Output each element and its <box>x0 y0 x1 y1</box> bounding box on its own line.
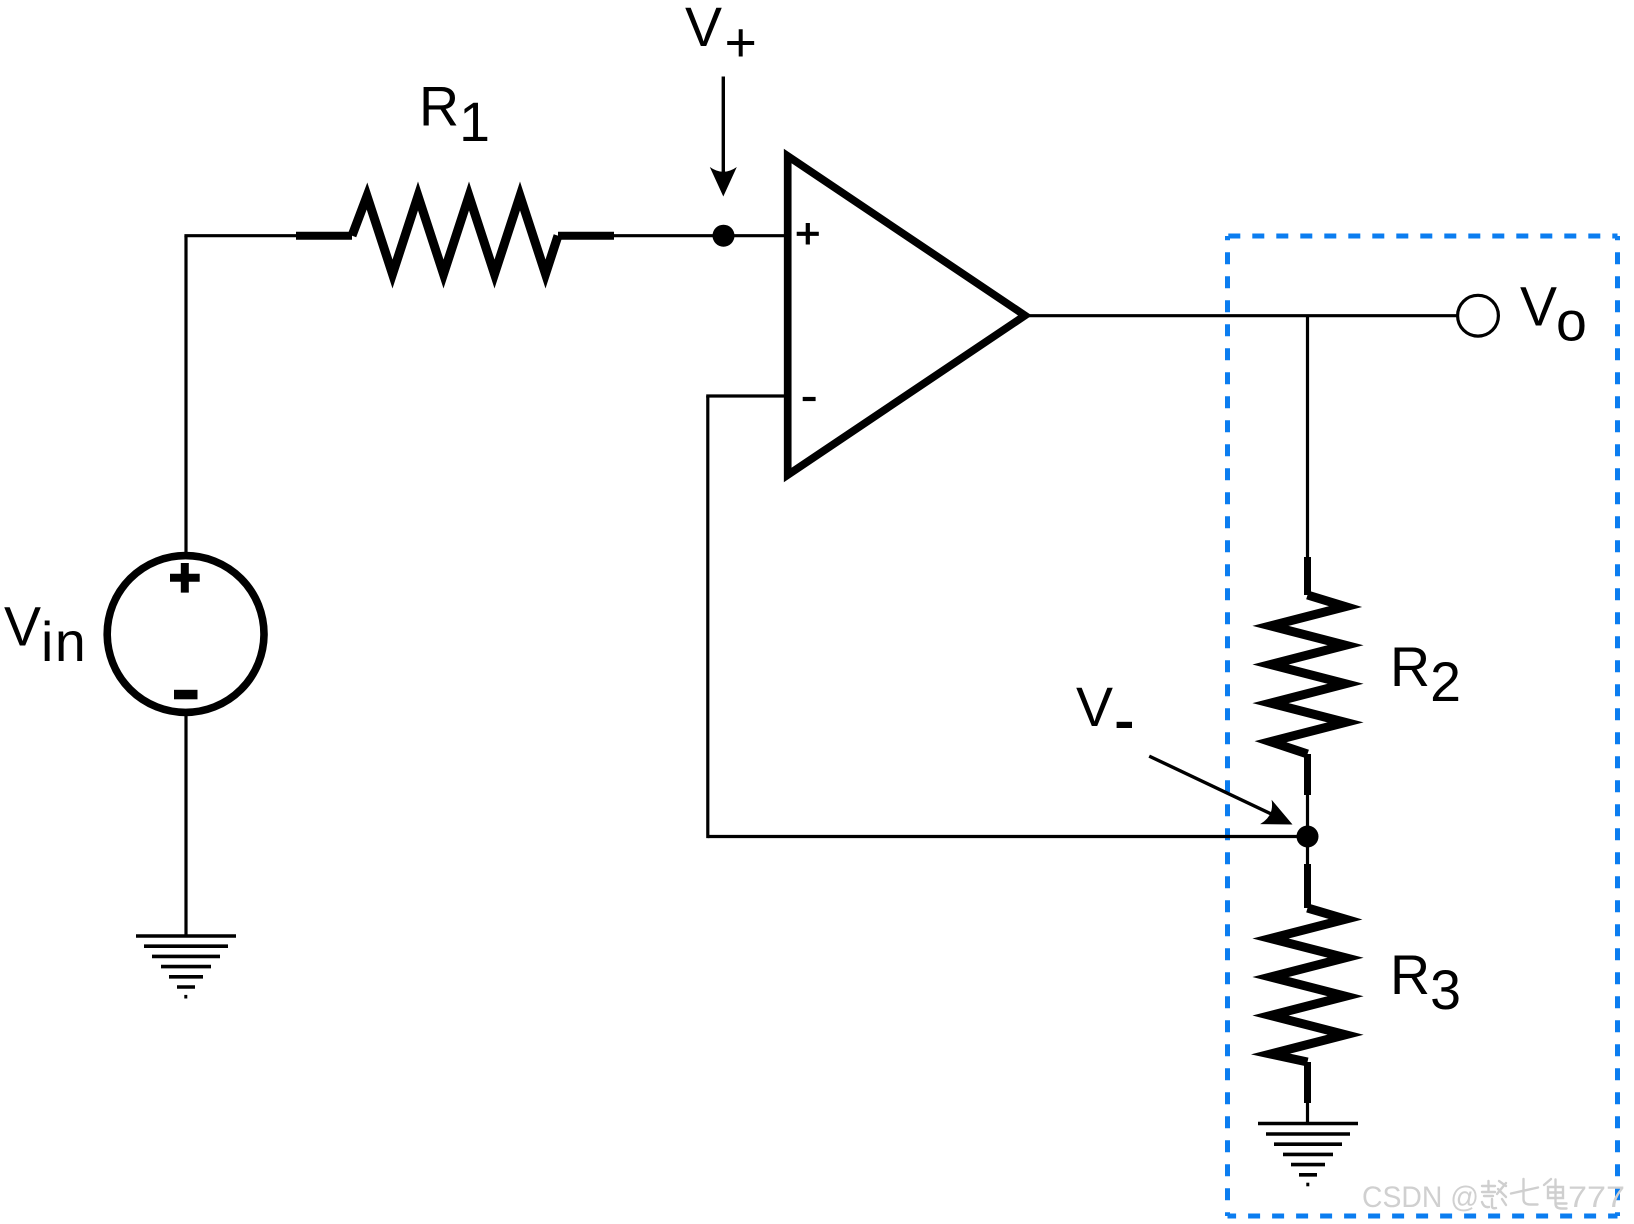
wire Vin to ground <box>184 712 187 936</box>
svg-text:V: V <box>1076 676 1113 738</box>
wire from output T-junction down to R2 <box>1306 316 1309 558</box>
wire R2 to node V- <box>1306 795 1309 837</box>
voltage source Vin <box>107 556 264 713</box>
arrow V- pointing to node <box>1149 756 1272 814</box>
node V- (junction dot) <box>1297 826 1319 848</box>
arrow V+ pointing to node <box>722 77 725 173</box>
wire feedback vertical <box>706 396 709 838</box>
op-amp U1 <box>788 156 1025 475</box>
resistor R1 <box>296 196 614 274</box>
wire R3 to ground <box>1306 1100 1309 1124</box>
watermark chinese glyphs <box>1482 1179 1567 1209</box>
wire node V- to R3 <box>1306 837 1309 867</box>
feedback wire from node V- to op-amp minus input <box>708 835 1308 838</box>
resistor R3 <box>1271 864 1346 1103</box>
op-amp minus input marking <box>803 397 816 401</box>
ground (left, below Vin) <box>136 936 236 997</box>
wire op-amp output <box>1028 314 1458 317</box>
wire from Vin top to R1 (vertical segment) <box>184 236 187 552</box>
dashed feedback network box <box>1228 236 1618 1216</box>
resistor R2 <box>1271 557 1346 795</box>
source plus marking <box>170 563 200 593</box>
ground (right, below R3) <box>1258 1124 1358 1185</box>
op-amp plus input marking <box>797 223 819 245</box>
wire horizontal from vertical riser to R1 left lead <box>184 234 297 237</box>
svg-text:777: 777 <box>1568 1181 1625 1214</box>
svg-text:CSDN @: CSDN @ <box>1362 1181 1479 1214</box>
wire from R1 to op-amp + input <box>614 234 788 237</box>
source minus marking <box>174 690 198 700</box>
output terminal (open circle) <box>1458 295 1499 336</box>
wire into minus input <box>706 394 788 397</box>
node V+ (junction dot) <box>713 225 735 247</box>
watermark CSDN <box>1362 1181 1625 1214</box>
